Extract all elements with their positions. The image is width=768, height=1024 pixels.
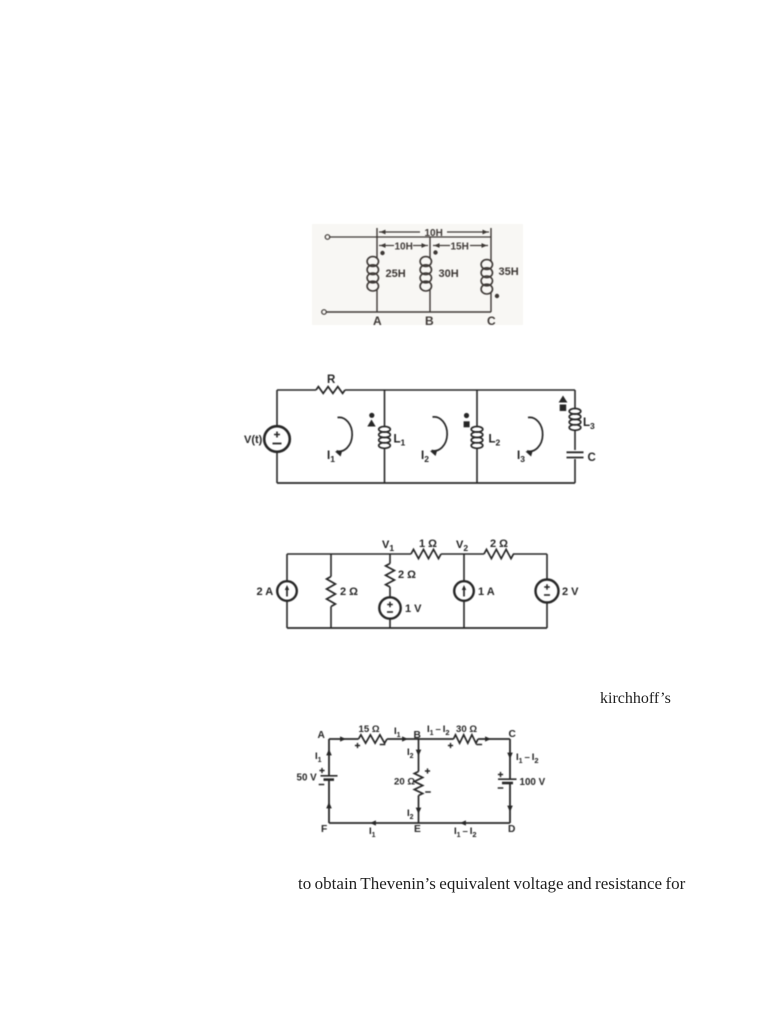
svg-text:I1: I1 [327, 450, 335, 464]
resistor 15ohm [359, 735, 388, 743]
resistor R [316, 387, 345, 394]
svg-text:100 V: 100 V [520, 777, 546, 788]
svg-text:V1: V1 [382, 539, 394, 553]
dot marker A [380, 251, 384, 255]
square marker L2 [464, 421, 470, 427]
svg-text:1 Ω: 1 Ω [419, 538, 437, 550]
wire right rail fig3 [546, 554, 548, 580]
svg-text:C: C [588, 452, 596, 464]
battery 100V short plate [502, 782, 513, 785]
dot marker L2 [464, 413, 469, 418]
svg-text:L2: L2 [489, 434, 501, 448]
svg-text:50 V: 50 V [297, 773, 318, 784]
polarity minus 20ohm [425, 791, 431, 793]
inductor 35H coil [481, 260, 492, 270]
svg-text:I2: I2 [421, 450, 429, 464]
wire left rail fig2 [276, 390, 278, 426]
svg-text:I1 – I2: I1 – I2 [516, 752, 539, 765]
svg-text:25H: 25H [386, 268, 406, 280]
terminal top-left [325, 235, 330, 240]
svg-text:15H: 15H [451, 242, 469, 253]
resistor 20ohm [414, 772, 422, 796]
polarity minus 15ohm [380, 744, 386, 746]
wire top rail fig2 [277, 389, 316, 391]
current arrow I2 down lower [416, 808, 422, 814]
current arrow I2 down [416, 750, 422, 756]
wire bottom rail fig4 [329, 822, 510, 824]
battery 50V long plate [321, 775, 338, 777]
wire branch A vertical [376, 228, 378, 258]
svg-text:B: B [425, 314, 434, 328]
svg-text:I1: I1 [315, 751, 322, 764]
svg-text:I1 – I2: I1 – I2 [427, 724, 450, 737]
wire branch L2 [476, 390, 478, 427]
current arrow before C [485, 736, 491, 741]
polarity plus 15ohm [355, 743, 360, 748]
svg-text:A: A [318, 730, 326, 741]
mesh current I2 arrow [432, 417, 448, 451]
svg-text:I1 – I2: I1 – I2 [454, 826, 477, 839]
dot marker C [495, 294, 499, 298]
svg-text:L1: L1 [394, 434, 406, 448]
svg-text:I1: I1 [369, 826, 376, 839]
mesh current I3 arrow [527, 417, 543, 451]
current arrow I1 bottom [370, 820, 376, 825]
svg-text:I2: I2 [407, 808, 414, 821]
svg-text:R: R [327, 374, 336, 386]
wire middle branch fig4 [418, 739, 420, 772]
svg-text:10H: 10H [395, 242, 413, 253]
resistor 1ohm [411, 549, 441, 558]
inductor L1 [379, 427, 391, 433]
capacitor C [567, 451, 584, 453]
current arrow I1-I2 bottom [460, 820, 466, 825]
wire branch B vertical [429, 237, 431, 258]
svg-text:2 Ω: 2 Ω [340, 586, 358, 598]
wire right rail fig2 [574, 390, 576, 408]
dot marker B [433, 250, 437, 254]
wire right rail fig4 [509, 739, 511, 779]
wire branch V2 fig3 [463, 554, 465, 582]
current source 1A [454, 581, 474, 601]
wire top rail fig4 [329, 738, 359, 740]
svg-text:C: C [509, 729, 517, 740]
wire bottom rail fig3 [287, 627, 547, 629]
resistor 2ohm top-right [484, 549, 514, 558]
svg-text:V(t): V(t) [244, 434, 263, 446]
current arrow after A [340, 736, 346, 741]
wire bottom rail fig2 [277, 482, 575, 484]
polarity plus 100V [498, 772, 503, 777]
inductor L2 [471, 427, 483, 433]
svg-text:E: E [414, 824, 421, 835]
svg-text:V2: V2 [456, 539, 468, 553]
wire left rail fig4 [328, 739, 330, 775]
svg-text:A: A [373, 314, 382, 328]
svg-text:30 Ω: 30 Ω [456, 724, 477, 735]
inductor L3 [569, 409, 581, 415]
resistor 30ohm [454, 735, 479, 743]
wire branch L1 [384, 390, 386, 427]
polarity minus 100V [498, 787, 504, 789]
resistor 2ohm at V1 [386, 564, 395, 588]
text kirchhoff's [600, 690, 671, 708]
figure 1 background [312, 224, 523, 325]
svg-text:2 Ω: 2 Ω [398, 569, 416, 581]
battery 100V long plate [498, 778, 517, 780]
source 2V [536, 580, 559, 603]
svg-text:1 V: 1 V [405, 603, 422, 615]
wire branch C vertical [490, 228, 492, 261]
wire branch V1 fig3 [389, 554, 391, 564]
current source 2A [277, 581, 297, 601]
svg-text:20 Ω: 20 Ω [394, 777, 415, 788]
mutual 10H dimension arrow A-B [379, 245, 394, 247]
terminal bottom-left [322, 310, 327, 315]
svg-text:2 V: 2 V [562, 586, 579, 598]
mutual 10H dimension arrow A-C [379, 231, 420, 233]
svg-text:I3: I3 [517, 450, 525, 464]
svg-text:15 Ω: 15 Ω [359, 724, 380, 735]
current arrow up lower-left [326, 802, 332, 808]
current arrow down lower-right [507, 806, 513, 812]
svg-text:2 A: 2 A [257, 586, 274, 598]
mutual 15H dimension arrow B-C [433, 245, 450, 247]
current arrow before B [402, 736, 408, 741]
source V(t) [264, 426, 290, 452]
text bottom sentence [298, 874, 685, 894]
triangle marker L1 [367, 420, 375, 427]
source 1V [379, 597, 400, 618]
polarity minus 50V [319, 784, 325, 786]
square marker L3 [560, 405, 567, 412]
triangle marker L3 [559, 396, 568, 403]
svg-text:F: F [321, 824, 327, 835]
polarity plus 20ohm [425, 768, 430, 773]
inductor 25H coil [367, 257, 378, 267]
svg-text:35H: 35H [499, 266, 519, 278]
polarity plus 50V [319, 768, 324, 773]
wire left rail fig3 [286, 554, 288, 582]
mesh current I1 arrow [337, 417, 353, 451]
svg-text:1 A: 1 A [478, 586, 495, 598]
wire branch 2ohm fig3 [330, 554, 332, 577]
polarity plus 30ohm [448, 743, 453, 748]
svg-text:I1: I1 [394, 726, 401, 739]
wire top rail fig3 [287, 553, 411, 555]
current arrow down right [507, 753, 513, 759]
wire top rail fig1 [329, 236, 491, 238]
resistor 2ohm branch [327, 577, 336, 607]
current arrow I1 up left [326, 749, 332, 755]
svg-text:L3: L3 [583, 417, 595, 431]
polarity minus 30ohm [477, 744, 483, 746]
svg-text:10H: 10H [425, 228, 443, 239]
wire bottom rail fig1 [326, 311, 491, 313]
inductor 30H coil [420, 257, 431, 267]
svg-text:B: B [414, 730, 421, 741]
svg-text:2 Ω: 2 Ω [490, 538, 508, 550]
svg-text:30H: 30H [439, 268, 459, 280]
dot marker L1 [369, 413, 374, 418]
battery 50V short plate [324, 778, 335, 781]
svg-text:I2: I2 [407, 747, 414, 760]
svg-text:D: D [508, 824, 515, 835]
svg-text:C: C [487, 314, 496, 328]
